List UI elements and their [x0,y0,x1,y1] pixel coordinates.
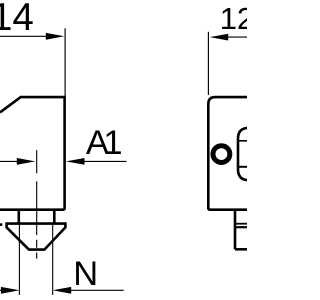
slot tangent line upper [237,140,247,142]
arrowhead N right [53,287,71,294]
stud left edge [234,210,237,250]
svg-text:14: 14 [0,0,34,39]
neck right edge [53,210,56,224]
svg-text:12: 12 [220,1,247,36]
stud bottom edge [235,248,247,251]
stud groove line upper [234,223,247,225]
extension line 14 [64,28,66,96]
left view bottom edge [0,208,65,211]
stud groove line lower [235,226,247,228]
centerline [36,150,38,259]
dimension line 12 [228,36,247,38]
svg-text:A1: A1 [86,124,122,162]
dimension line 14 [0,35,47,37]
slot outline [238,128,249,180]
wedge foot outline [7,224,66,250]
svg-text:N: N [73,255,98,293]
N extension line left [18,225,20,295]
right view body outline [208,97,247,210]
arrowhead 12 [210,34,229,41]
cut-off line stub at left edge [0,223,2,226]
dimension tail N [71,289,124,291]
N extension line right [52,225,54,295]
right view bottom edge [208,208,247,211]
left view body outline [0,97,65,210]
arrowhead N left [1,287,20,294]
dimension line A1 left [0,160,17,162]
dimension line N left [0,289,1,291]
hole circle [213,146,230,163]
extension line 12 [207,32,209,95]
slot tangent line lower [237,166,247,168]
dimension tail A1 [84,160,127,162]
arrowhead 14 [46,33,65,40]
arrowhead A1 left [17,158,36,165]
arrowhead A1 right [66,158,85,165]
neck left edge [17,210,20,224]
